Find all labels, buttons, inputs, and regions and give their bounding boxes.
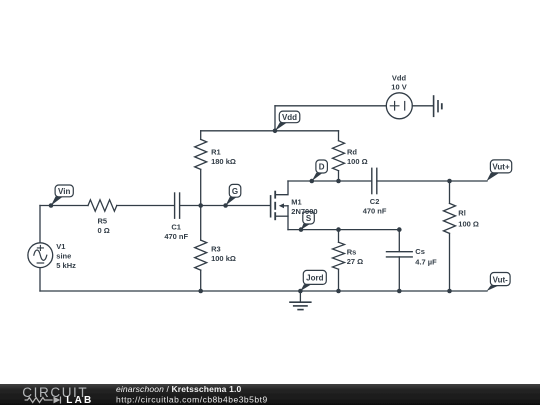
svg-text:470 nF: 470 nF <box>363 207 387 216</box>
svg-text:Vdd: Vdd <box>282 113 297 122</box>
svg-text:M1: M1 <box>291 197 301 206</box>
svg-text:R3: R3 <box>211 244 221 253</box>
svg-text:LAB: LAB <box>66 395 93 405</box>
svg-text:100 kΩ: 100 kΩ <box>211 254 236 263</box>
svg-text:G: G <box>232 187 238 196</box>
svg-text:2N7000: 2N7000 <box>291 207 317 216</box>
svg-text:C2: C2 <box>370 197 380 206</box>
svg-text:C1: C1 <box>171 223 181 232</box>
svg-text:10 V: 10 V <box>391 83 406 92</box>
svg-text:D: D <box>319 163 325 172</box>
svg-text:Rl: Rl <box>458 208 466 217</box>
svg-text:4.7 µF: 4.7 µF <box>415 257 437 266</box>
svg-text:V1: V1 <box>56 242 65 251</box>
svg-text:Vut+: Vut+ <box>492 163 510 172</box>
svg-text:Vut-: Vut- <box>493 275 509 284</box>
svg-text:5 kHz: 5 kHz <box>56 261 76 270</box>
svg-text:100 Ω: 100 Ω <box>347 157 368 166</box>
svg-text:Jord: Jord <box>306 274 323 283</box>
svg-text:http://circuitlab.com/cb8b4be3: http://circuitlab.com/cb8b4be3b5bt9 <box>116 394 268 404</box>
svg-text:Rd: Rd <box>347 147 357 156</box>
svg-text:180 kΩ: 180 kΩ <box>211 157 236 166</box>
svg-text:470 nF: 470 nF <box>164 232 188 241</box>
svg-text:27 Ω: 27 Ω <box>347 257 363 266</box>
svg-text:R5: R5 <box>98 217 108 226</box>
svg-text:Rs: Rs <box>347 247 357 256</box>
svg-text:Vin: Vin <box>58 187 70 196</box>
svg-text:einarschoon / Kretsschema 1.0: einarschoon / Kretsschema 1.0 <box>116 384 241 394</box>
svg-text:sine: sine <box>56 252 71 261</box>
svg-text:R1: R1 <box>211 147 221 156</box>
svg-text:Cs: Cs <box>415 247 425 256</box>
svg-text:Vdd: Vdd <box>392 74 407 83</box>
svg-text:0 Ω: 0 Ω <box>98 226 110 235</box>
svg-text:100 Ω: 100 Ω <box>458 220 479 229</box>
